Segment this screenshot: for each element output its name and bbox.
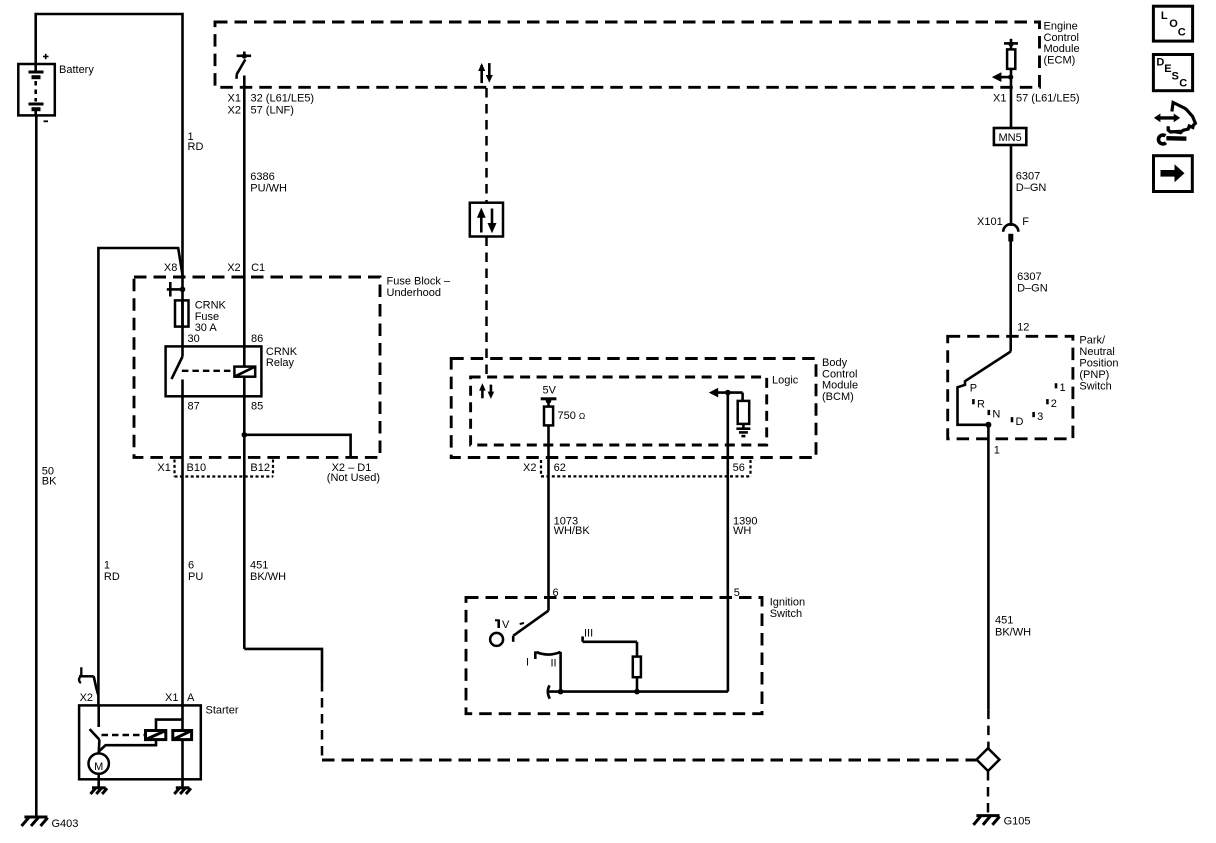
icon DESC bbox=[1153, 55, 1192, 91]
svg-text:BK: BK bbox=[42, 476, 57, 488]
svg-text:Logic: Logic bbox=[772, 375, 799, 387]
svg-text:32 (L61/LE5): 32 (L61/LE5) bbox=[251, 92, 315, 104]
ignition position I contact bbox=[526, 652, 539, 669]
battery bbox=[18, 54, 94, 122]
svg-text:(PNP): (PNP) bbox=[1079, 369, 1109, 381]
connector row X2 62 56 bbox=[523, 460, 751, 476]
svg-text:RD: RD bbox=[188, 141, 204, 153]
CRNK fuse 30A bbox=[175, 276, 227, 346]
svg-text:G105: G105 bbox=[1004, 816, 1031, 828]
svg-text:Switch: Switch bbox=[770, 608, 802, 620]
svg-text:PU: PU bbox=[188, 571, 203, 583]
BCM box bbox=[451, 357, 858, 458]
svg-text:(Not Used): (Not Used) bbox=[327, 472, 380, 484]
svg-text:1: 1 bbox=[994, 444, 1000, 456]
svg-text:L: L bbox=[1161, 10, 1168, 22]
ECM internal pull-up resistor bbox=[1004, 39, 1018, 88]
svg-text:Fuse Block –: Fuse Block – bbox=[387, 276, 451, 288]
svg-text:451: 451 bbox=[250, 560, 268, 572]
starter hold-in winding bbox=[173, 731, 192, 740]
svg-text:III: III bbox=[584, 627, 593, 639]
connector X2 starter inline clip bbox=[79, 667, 98, 704]
svg-text:451: 451 bbox=[995, 615, 1013, 627]
wire battery positive to 1 RD feed bbox=[36, 14, 204, 276]
svg-text:86: 86 bbox=[251, 333, 263, 345]
svg-text:6386: 6386 bbox=[250, 171, 274, 183]
svg-text:6307: 6307 bbox=[1017, 271, 1041, 283]
svg-text:BK/WH: BK/WH bbox=[995, 627, 1031, 639]
svg-text:WH/BK: WH/BK bbox=[554, 525, 591, 537]
svg-text:C1: C1 bbox=[251, 262, 265, 274]
ignition switch box bbox=[466, 597, 805, 714]
wire 6386 PU/WH ECM to fuse block C1 bbox=[227, 76, 314, 367]
svg-text:5V: 5V bbox=[543, 385, 557, 397]
wire 6307 D-GN X101 to PNP pin 12 bbox=[1011, 242, 1048, 352]
svg-text:Body: Body bbox=[822, 357, 848, 369]
connector X101 pin F bbox=[977, 216, 1029, 242]
svg-text:R: R bbox=[977, 398, 985, 410]
svg-text:X1: X1 bbox=[993, 92, 1006, 104]
ignition position IV mark bbox=[495, 619, 524, 631]
svg-text:1: 1 bbox=[104, 560, 110, 572]
svg-text:Switch: Switch bbox=[1079, 381, 1111, 393]
ignition resistor bbox=[633, 642, 641, 695]
serial data gateway symbol bbox=[470, 203, 503, 237]
starter box bbox=[79, 692, 239, 780]
svg-text:Neutral: Neutral bbox=[1079, 346, 1114, 358]
BCM signal ground bbox=[736, 429, 750, 436]
svg-text:C: C bbox=[1178, 27, 1186, 39]
svg-text:I: I bbox=[526, 657, 529, 669]
svg-text:PU/WH: PU/WH bbox=[250, 182, 287, 194]
icon LOC bbox=[1153, 6, 1192, 41]
svg-text:V: V bbox=[502, 619, 510, 631]
starter solenoid contact bbox=[90, 705, 146, 753]
icon vehicle data bbox=[1154, 103, 1196, 144]
svg-text:D: D bbox=[1156, 56, 1164, 68]
svg-text:N: N bbox=[992, 408, 1000, 420]
svg-text:B10: B10 bbox=[187, 462, 207, 474]
BCM resistor 750 ohm bbox=[544, 401, 585, 426]
svg-text:6307: 6307 bbox=[1016, 171, 1040, 183]
serial data link ECM to BCM bbox=[478, 63, 493, 376]
starter pull-in winding bbox=[146, 731, 166, 740]
svg-text:II: II bbox=[551, 658, 557, 670]
ignition wiper arc I to II bbox=[537, 652, 561, 670]
svg-text:D–GN: D–GN bbox=[1016, 182, 1047, 194]
svg-text:Position: Position bbox=[1079, 358, 1118, 370]
wire 1 RD branch to starter X2 bbox=[98, 248, 182, 705]
svg-text:B12: B12 bbox=[250, 462, 270, 474]
stud X8 bbox=[164, 262, 185, 297]
wire relay 85 to B12 and X2-D1 bbox=[242, 377, 380, 649]
svg-text:X1: X1 bbox=[157, 462, 170, 474]
ECM internal input arrow bbox=[992, 72, 1014, 82]
svg-text:X2: X2 bbox=[227, 262, 240, 274]
BCM input resistor bbox=[738, 393, 750, 428]
ECM internal starter-enable switch bbox=[237, 52, 252, 79]
svg-text:D: D bbox=[1016, 416, 1024, 428]
ground G105 bbox=[973, 816, 1030, 828]
svg-text:87: 87 bbox=[188, 400, 200, 412]
svg-text:750 Ω: 750 Ω bbox=[558, 410, 586, 422]
splice pack MN5 bbox=[994, 128, 1026, 145]
svg-text:M: M bbox=[94, 761, 103, 773]
wire 6307 D-GN ECM to X101 bbox=[993, 87, 1080, 226]
svg-text:(ECM): (ECM) bbox=[1044, 54, 1076, 66]
svg-text:Module: Module bbox=[822, 380, 858, 392]
splice diamond S-pack bbox=[977, 748, 1000, 813]
svg-text:X2: X2 bbox=[80, 692, 93, 704]
ignition common wire bbox=[549, 598, 728, 692]
PNP switch wiper and contacts bbox=[958, 352, 1066, 428]
BCM output arrow bbox=[709, 388, 743, 398]
svg-text:56: 56 bbox=[733, 462, 745, 474]
wire 56 from arrow junction bbox=[726, 393, 729, 598]
svg-text:C: C bbox=[1179, 78, 1187, 90]
svg-text:6: 6 bbox=[188, 560, 194, 572]
wire relay 87 to B10 bbox=[183, 380, 204, 706]
svg-text:Relay: Relay bbox=[266, 357, 295, 369]
BCM 5V supply bbox=[541, 385, 557, 404]
svg-text:(BCM): (BCM) bbox=[822, 391, 854, 403]
svg-text:Underhood: Underhood bbox=[387, 287, 441, 299]
svg-text:Control: Control bbox=[1044, 32, 1079, 44]
svg-text:62: 62 bbox=[554, 462, 566, 474]
svg-text:E: E bbox=[1164, 63, 1171, 75]
svg-text:P: P bbox=[970, 382, 977, 394]
wire 1073 WH/BK labels bbox=[553, 515, 591, 599]
svg-text:3: 3 bbox=[1037, 411, 1043, 423]
svg-text:57 (L61/LE5): 57 (L61/LE5) bbox=[1016, 92, 1080, 104]
svg-text:S: S bbox=[1172, 70, 1179, 82]
svg-text:1: 1 bbox=[1060, 382, 1066, 394]
svg-text:RD: RD bbox=[104, 571, 120, 583]
svg-text:MN5: MN5 bbox=[998, 132, 1021, 144]
wire 451 BK/WH PNP pin 1 to splice bbox=[988, 425, 1031, 748]
svg-text:X2: X2 bbox=[228, 104, 241, 116]
PNP switch box bbox=[948, 335, 1119, 439]
wire hold-in winding to ground bbox=[181, 740, 184, 787]
svg-text:A: A bbox=[187, 692, 195, 704]
svg-text:X101: X101 bbox=[977, 216, 1003, 228]
CRNK relay coil bbox=[234, 367, 255, 377]
ignition position II wire bbox=[548, 652, 564, 699]
starter motor M bbox=[89, 753, 109, 773]
svg-text:85: 85 bbox=[251, 400, 263, 412]
svg-text:30: 30 bbox=[188, 333, 200, 345]
ground G403 bbox=[22, 817, 79, 830]
svg-text:WH: WH bbox=[733, 525, 751, 537]
wire motor to ground bbox=[97, 774, 100, 787]
svg-text:Module: Module bbox=[1044, 43, 1080, 55]
svg-text:Park/: Park/ bbox=[1079, 335, 1106, 347]
svg-text:Starter: Starter bbox=[206, 704, 239, 716]
BCM serial data arrows bbox=[479, 383, 494, 399]
svg-text:D–GN: D–GN bbox=[1017, 283, 1048, 295]
connector row X1 B10 B12 bbox=[157, 460, 273, 477]
wire pull-in winding to motor bbox=[99, 740, 156, 752]
CRNK relay contact bbox=[172, 346, 235, 379]
BCM logic box bbox=[471, 375, 799, 446]
svg-text:X8: X8 bbox=[164, 262, 177, 274]
wire 62 from 750 ohm resistor bbox=[547, 425, 550, 597]
svg-text:12: 12 bbox=[1017, 322, 1029, 334]
svg-text:57 (LNF): 57 (LNF) bbox=[251, 104, 294, 116]
starter motor ground bbox=[91, 788, 108, 794]
starter solenoid ground bbox=[174, 788, 191, 794]
ignition position III contact bbox=[583, 627, 637, 642]
svg-text:BK/WH: BK/WH bbox=[250, 571, 286, 583]
svg-text:X1: X1 bbox=[165, 692, 178, 704]
svg-text:G403: G403 bbox=[52, 818, 79, 830]
svg-text:Battery: Battery bbox=[59, 64, 94, 76]
wire 6 PU starter X1 A to solenoid windings bbox=[156, 705, 183, 730]
CRNK relay box bbox=[166, 333, 298, 413]
icon forward arrow bbox=[1154, 156, 1193, 192]
wire 50 BK battery negative bbox=[36, 115, 57, 816]
svg-text:CRNK: CRNK bbox=[266, 346, 298, 358]
svg-text:Engine: Engine bbox=[1044, 21, 1078, 33]
svg-text:Control: Control bbox=[822, 368, 857, 380]
wire 1390 WH labels bbox=[733, 515, 757, 599]
fuse block underhood box bbox=[134, 276, 451, 458]
svg-text:X2: X2 bbox=[523, 462, 536, 474]
wire 451 BK/WH B12 to splice bbox=[244, 560, 976, 761]
svg-text:2: 2 bbox=[1051, 398, 1057, 410]
ignition switch rotor bbox=[490, 598, 548, 646]
ECM box bbox=[215, 21, 1080, 88]
svg-text:Ignition: Ignition bbox=[770, 597, 805, 609]
svg-text:F: F bbox=[1022, 216, 1029, 228]
svg-text:X1: X1 bbox=[228, 92, 241, 104]
